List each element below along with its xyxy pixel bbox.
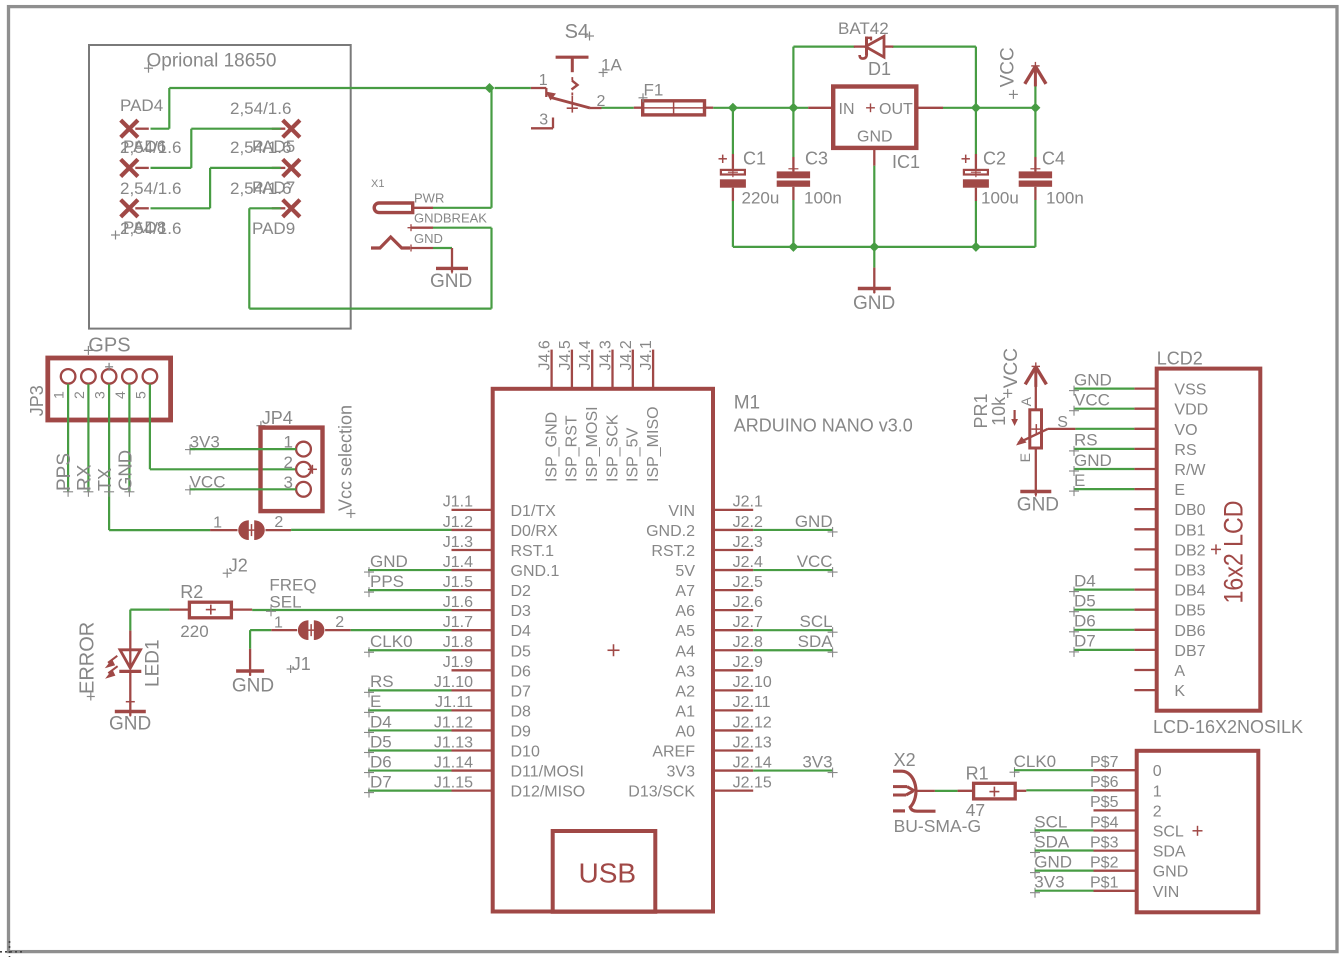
svg-text:GND: GND (1034, 853, 1072, 872)
svg-text:RS: RS (370, 672, 394, 691)
svg-text:J4.1: J4.1 (638, 340, 655, 370)
svg-text:4: 4 (112, 391, 128, 399)
svg-text:D6: D6 (370, 752, 392, 771)
svg-text:SDA: SDA (798, 632, 834, 651)
pad PAD8 (121, 200, 138, 217)
pin J2.12 of M1 (713, 729, 753, 731)
svg-text:R2: R2 (180, 582, 203, 602)
svg-text:3V3: 3V3 (802, 752, 832, 771)
svg-text:J2.7: J2.7 (733, 614, 763, 631)
svg-text:GND: GND (1017, 495, 1059, 516)
svg-text:J2: J2 (229, 555, 248, 575)
svg-text:C3: C3 (805, 149, 828, 169)
svg-text:J2.2: J2.2 (733, 514, 763, 531)
svg-text:J2.11: J2.11 (733, 694, 771, 711)
svg-text:GND: GND (1074, 370, 1112, 389)
svg-text:J2.4: J2.4 (733, 554, 763, 571)
pin J2.4 of M1 (713, 569, 753, 571)
svg-text:VCC: VCC (998, 47, 1019, 87)
pin J1.13 of M1 (452, 749, 493, 751)
svg-text:PAD5: PAD5 (252, 137, 295, 156)
regulator IC1 (833, 87, 916, 148)
pin J2.15 of M1 (713, 789, 753, 791)
supply symbol VCC at PR1 (1034, 367, 1037, 387)
pin J4.1 ISP (652, 350, 654, 389)
svg-text:LCD-16X2NOSILK: LCD-16X2NOSILK (1153, 717, 1303, 737)
svg-text:J4.4: J4.4 (577, 340, 594, 370)
svg-text:1A: 1A (601, 55, 622, 74)
wire GND to P$2 (1035, 869, 1094, 871)
svg-text:VO: VO (1174, 422, 1197, 439)
svg-text:3: 3 (539, 112, 548, 129)
pin DB3 of LCD2 (1134, 568, 1156, 570)
svg-text:2: 2 (274, 514, 283, 531)
svg-text:J2.15: J2.15 (733, 774, 772, 791)
svg-text:SEL: SEL (269, 593, 301, 612)
pin J1.9 of M1 (452, 669, 493, 671)
svg-text:K: K (1174, 683, 1185, 700)
svg-text:J1: J1 (292, 654, 311, 674)
wire X1 PWR to switch net (433, 207, 492, 209)
svg-text:GND: GND (414, 231, 443, 246)
svg-text:J4.3: J4.3 (598, 340, 615, 370)
wire RS to LCD RS (1074, 448, 1134, 450)
pin J2.6 of M1 (713, 609, 753, 611)
wire SDA from J2.8 (753, 649, 832, 651)
pin K of LCD2 (1134, 689, 1156, 691)
svg-text:TX: TX (95, 468, 115, 491)
svg-text:VIN: VIN (668, 503, 695, 520)
pin J1.6 of M1 (452, 609, 493, 611)
pin VSS of LCD2 (1134, 387, 1156, 389)
wire CLK0 to P$7 (1014, 769, 1094, 771)
svg-text:A4: A4 (675, 643, 695, 660)
pin J1.5 of M1 (452, 589, 493, 591)
svg-text:J2.1: J2.1 (733, 494, 763, 511)
pin J4.2 ISP (632, 350, 634, 389)
svg-text:P$1: P$1 (1090, 875, 1119, 892)
svg-text:P$5: P$5 (1090, 794, 1119, 811)
wire D7 to LCD DB7 (1074, 649, 1134, 651)
svg-text:D4: D4 (511, 623, 532, 640)
pin P$3 of connector (1094, 849, 1137, 851)
wire GND to LCD R/W (1074, 468, 1134, 470)
wire VCC to JP4 pin3 (190, 488, 296, 490)
pin 3 of JP3 (102, 369, 117, 384)
svg-text:P$7: P$7 (1090, 754, 1119, 771)
svg-text:GND: GND (232, 676, 274, 697)
svg-text:C4: C4 (1042, 149, 1065, 169)
wire 3V3 from J2.14 (753, 769, 832, 771)
pot adjust arrow (1013, 410, 1015, 421)
svg-text:R1: R1 (966, 764, 989, 784)
pin J4.4 ISP (591, 350, 593, 389)
wire RS to J1.10 (368, 689, 452, 691)
svg-text:1: 1 (1153, 783, 1162, 800)
pad PAD7 (283, 159, 300, 176)
svg-text:GND: GND (114, 450, 135, 491)
svg-text:J2.12: J2.12 (733, 714, 772, 731)
pin J2.9 of M1 (713, 669, 753, 671)
svg-text:D2: D2 (511, 583, 532, 600)
svg-text:D5: D5 (1074, 592, 1096, 611)
pin J1.4 of M1 (452, 569, 493, 571)
svg-text:D3: D3 (511, 603, 532, 620)
svg-text:D6: D6 (1074, 612, 1096, 631)
pin J4.3 ISP (611, 350, 613, 389)
wire E to LCD E (1074, 488, 1134, 490)
svg-text:GNDBREAK: GNDBREAK (414, 211, 487, 226)
svg-text:PAD7: PAD7 (252, 178, 295, 197)
svg-text:D9: D9 (511, 723, 532, 740)
svg-text:BAT42: BAT42 (838, 19, 889, 38)
svg-text:2,54/1.6: 2,54/1.6 (230, 99, 291, 118)
svg-text:220u: 220u (742, 189, 780, 208)
wire SDA to P$3 (1035, 849, 1094, 851)
pin 3 of JP4 (296, 482, 311, 497)
wire R1 to connector P$6 (1026, 789, 1093, 791)
svg-text:P$3: P$3 (1090, 834, 1119, 851)
pin J1.2 of M1 (452, 529, 493, 531)
pin P$6 of connector (1094, 789, 1137, 791)
wire PAD4 to top rail (151, 128, 170, 130)
wire PAD7 to PAD8 (210, 167, 281, 169)
svg-text:10k: 10k (989, 396, 1009, 426)
svg-text:PAD4: PAD4 (120, 96, 163, 115)
svg-text:F1: F1 (644, 81, 664, 100)
svg-text:GND: GND (857, 129, 893, 146)
svg-text:D7: D7 (511, 683, 532, 700)
pin RS of LCD2 (1134, 448, 1156, 450)
pad PAD9 (283, 200, 300, 217)
pin 4 of JP3 (122, 369, 137, 384)
svg-text:D0/RX: D0/RX (511, 523, 558, 540)
svg-text:IN: IN (839, 101, 855, 118)
svg-text:SCL: SCL (1034, 812, 1067, 831)
pin J2.11 of M1 (713, 709, 753, 711)
svg-text:J1.9: J1.9 (443, 654, 473, 671)
pin P$7 of connector (1094, 769, 1137, 771)
svg-text:RST.1: RST.1 (511, 543, 555, 560)
svg-text:D1: D1 (868, 59, 891, 79)
svg-text:J1.2: J1.2 (443, 514, 473, 531)
pad PAD5 (283, 120, 300, 137)
wire PAD9 to GNDBREAK (249, 207, 280, 209)
svg-text:2,54/1.6: 2,54/1.6 (120, 179, 181, 198)
svg-text:P$2: P$2 (1090, 855, 1119, 872)
wire IC1 GND down to rail (873, 166, 875, 247)
svg-text:47: 47 (966, 800, 985, 820)
wire E to J1.11 (368, 709, 452, 711)
pin A of LCD2 (1134, 669, 1156, 671)
svg-text:GND: GND (109, 714, 151, 735)
wire X2 to R1 (935, 790, 958, 792)
pin E of LCD2 (1134, 488, 1156, 490)
svg-text:3: 3 (92, 391, 108, 399)
pin DB5 of LCD2 (1134, 609, 1156, 611)
svg-text:D7: D7 (370, 772, 392, 791)
svg-text:RST.2: RST.2 (651, 543, 695, 560)
svg-text:VSS: VSS (1174, 382, 1206, 399)
pin J2.14 of M1 (713, 769, 753, 771)
svg-text:GND: GND (1153, 864, 1189, 881)
svg-text:A0: A0 (675, 723, 695, 740)
svg-text:DB4: DB4 (1174, 583, 1205, 600)
pin J1.7 of M1 (452, 629, 493, 631)
svg-text:100u: 100u (981, 189, 1019, 208)
svg-text:E: E (1174, 482, 1185, 499)
svg-text:A6: A6 (675, 603, 695, 620)
svg-text:2: 2 (71, 391, 87, 399)
pot body (1035, 385, 1037, 410)
wire J2 to arduino J1.2 (291, 529, 451, 531)
svg-text:DB7: DB7 (1174, 643, 1205, 660)
pin DB7 of LCD2 (1134, 649, 1156, 651)
svg-text:JP4: JP4 (262, 408, 293, 428)
svg-text:E: E (1017, 453, 1033, 462)
svg-text:J4.2: J4.2 (618, 340, 635, 370)
svg-text:C2: C2 (983, 149, 1006, 169)
svg-text:J2.9: J2.9 (733, 654, 763, 671)
pin P$5 of connector (1094, 809, 1137, 811)
svg-text:J1.6: J1.6 (443, 594, 473, 611)
svg-text:D13/SCK: D13/SCK (628, 784, 695, 801)
capacitor C4 (1034, 108, 1036, 157)
svg-text:ISP_RST: ISP_RST (564, 415, 581, 482)
wire SCL to P$4 (1035, 829, 1094, 831)
svg-text:PPS: PPS (54, 453, 75, 491)
svg-text:J2.6: J2.6 (733, 594, 763, 611)
svg-text:J2.14: J2.14 (733, 754, 772, 771)
svg-text:GND: GND (430, 271, 472, 292)
svg-text:S4: S4 (565, 21, 589, 43)
wire JP3 pin5 to JP4 pin2 (149, 384, 151, 469)
svg-text:D4: D4 (1074, 571, 1096, 590)
wire J1 pin1 to ground (250, 629, 271, 631)
svg-text:PAD9: PAD9 (252, 219, 295, 238)
pin J1.1 of M1 (452, 509, 493, 511)
svg-text:CLK0: CLK0 (370, 632, 413, 651)
wire R2 to arduino J1.6 FREQ SEL net (252, 609, 451, 611)
svg-text:J1.4: J1.4 (443, 554, 473, 571)
ground rail wire (733, 246, 1036, 248)
pin VDD of LCD2 (1134, 408, 1156, 410)
junction IC1 out (971, 103, 981, 113)
wire JP3 pin1 PPS (67, 384, 69, 492)
pin J2.13 of M1 (713, 749, 753, 751)
wire 3V3 to P$1 (1035, 890, 1094, 892)
pin J2.10 of M1 (713, 689, 753, 691)
svg-text:SDA: SDA (1153, 844, 1186, 861)
svg-text:P$6: P$6 (1090, 774, 1119, 791)
svg-text:A2: A2 (675, 683, 695, 700)
svg-text:E: E (1074, 471, 1085, 490)
svg-text:J1.7: J1.7 (443, 614, 473, 631)
pin P$4 of connector (1094, 829, 1137, 831)
wire JP3 pin3 TX to jumper J2 (108, 384, 110, 530)
wire D5 to J1.13 (368, 749, 452, 751)
pin VO of LCD2 (1134, 428, 1156, 430)
wire pot S to LCD VO (1048, 428, 1075, 430)
svg-text:5V: 5V (675, 563, 695, 580)
svg-text:PR1: PR1 (971, 393, 991, 428)
wire R2 left to LED1 (130, 608, 169, 610)
wire D5 to LCD DB5 (1074, 609, 1134, 611)
svg-text:2: 2 (284, 453, 293, 472)
wire F1 to IC1 IN (713, 107, 808, 109)
svg-text:Oprional 18650: Oprional 18650 (147, 51, 277, 72)
svg-text:A: A (1174, 663, 1185, 680)
svg-text:A: A (1018, 396, 1034, 406)
fuse F1 (634, 107, 643, 109)
svg-text:16x2 LCD: 16x2 LCD (1219, 501, 1249, 604)
pin 3 of S4 (531, 127, 553, 129)
svg-text:GND: GND (370, 552, 408, 571)
pin J2.8 of M1 (713, 649, 753, 651)
svg-text:2: 2 (1153, 803, 1162, 820)
wire D7 to J1.15 (368, 789, 452, 791)
svg-text:J4.5: J4.5 (557, 340, 574, 370)
svg-text:2: 2 (335, 614, 344, 631)
svg-text:DB5: DB5 (1174, 603, 1205, 620)
capacitor C1 (732, 108, 734, 154)
svg-text:100n: 100n (804, 189, 842, 208)
svg-text:VCC: VCC (797, 552, 833, 571)
pin DB2 of LCD2 (1134, 548, 1156, 550)
wire X1 GND to ground (433, 247, 452, 249)
svg-text:RS: RS (1074, 431, 1098, 450)
svg-text:DB2: DB2 (1174, 542, 1205, 559)
svg-text:GND.2: GND.2 (646, 523, 695, 540)
svg-text:1: 1 (539, 72, 548, 89)
ground symbol below J1 (236, 669, 264, 672)
svg-text:D8: D8 (511, 703, 532, 720)
svg-text:J1.12: J1.12 (434, 714, 473, 731)
svg-text:J1.14: J1.14 (434, 754, 473, 771)
svg-text:ISP_MISO: ISP_MISO (645, 406, 662, 482)
svg-text:R/W: R/W (1174, 462, 1206, 479)
wire GND to J1.4 (368, 569, 452, 571)
svg-text:J1.15: J1.15 (434, 774, 473, 791)
USB connector box (553, 831, 656, 912)
svg-text:LED1: LED1 (143, 639, 164, 687)
svg-text:D12/MISO: D12/MISO (511, 784, 586, 801)
pot E pin to ground (1035, 448, 1037, 495)
svg-text:DB1: DB1 (1174, 522, 1205, 539)
pin P$1 of connector (1094, 890, 1137, 892)
pin DB1 of LCD2 (1134, 528, 1156, 530)
svg-text:OUT: OUT (879, 101, 913, 118)
pin J1.12 of M1 (452, 729, 493, 731)
svg-text:P$4: P$4 (1090, 814, 1119, 831)
svg-text:1: 1 (213, 514, 222, 531)
svg-text:USB: USB (579, 858, 637, 889)
wire IC1 OUT to VCC (943, 107, 1035, 109)
svg-text:J1.8: J1.8 (443, 634, 473, 651)
svg-text:3V3: 3V3 (1034, 873, 1064, 892)
svg-text:M1: M1 (734, 392, 760, 413)
diode bypass loop wire (792, 47, 794, 108)
svg-text:ISP_MOSI: ISP_MOSI (584, 406, 601, 482)
svg-text:ISP_5V: ISP_5V (625, 427, 642, 482)
pin J2.5 of M1 (713, 589, 753, 591)
svg-text:ISP_GND: ISP_GND (543, 412, 560, 482)
svg-text:1: 1 (274, 614, 283, 631)
pin J1.10 of M1 (452, 689, 493, 691)
svg-text:SCL: SCL (800, 612, 833, 631)
svg-text:PWR: PWR (414, 190, 444, 205)
wire JP3 pin4 GND (128, 384, 130, 492)
svg-text:A7: A7 (675, 583, 695, 600)
pin GNDBREAK of X1 (411, 227, 433, 229)
wire PAD5 to PAD6 (191, 128, 280, 130)
pin J1.11 of M1 (452, 709, 493, 711)
svg-text:J1.3: J1.3 (443, 534, 473, 551)
junction rail C3 (788, 242, 798, 252)
svg-text:GPS: GPS (88, 335, 130, 357)
junction VCC tap (1030, 103, 1040, 113)
svg-text:ARDUINO NANO v3.0: ARDUINO NANO v3.0 (734, 416, 913, 436)
pin J2.7 of M1 (713, 629, 753, 631)
svg-text:D1/TX: D1/TX (511, 503, 557, 520)
svg-text:X1: X1 (371, 178, 384, 190)
wire VCC from J2.4 (753, 569, 832, 571)
svg-text:J2.10: J2.10 (733, 674, 772, 691)
svg-text:GND: GND (853, 293, 895, 314)
svg-text:J1.10: J1.10 (434, 674, 473, 691)
pin DB4 of LCD2 (1134, 588, 1156, 590)
svg-text:SCL: SCL (1153, 824, 1184, 841)
pin J4.6 ISP (550, 350, 552, 389)
wire S4 pin2 to fuse F1 (602, 107, 634, 109)
wire D4 to LCD DB4 (1074, 588, 1134, 590)
pin PWR of X1 (413, 207, 433, 209)
svg-text:J1.5: J1.5 (443, 574, 473, 591)
wire S4 pin1 from junction (495, 87, 531, 89)
svg-text:J2.5: J2.5 (733, 574, 763, 591)
svg-text:GND.1: GND.1 (511, 563, 560, 580)
svg-text:ERROR: ERROR (77, 622, 99, 694)
pin J2.1 of M1 (713, 509, 753, 511)
capacitor C3 (792, 108, 794, 157)
svg-text:RS: RS (1174, 442, 1196, 459)
pin 1 of JP3 (61, 369, 76, 384)
svg-text:100n: 100n (1046, 189, 1084, 208)
pin 2 of JP4 (296, 462, 311, 477)
svg-text:VDD: VDD (1174, 402, 1208, 419)
svg-text:3V3: 3V3 (667, 764, 696, 781)
svg-text:ISP_SCK: ISP_SCK (604, 414, 621, 482)
wire VCC to LCD VDD (1074, 408, 1134, 410)
svg-text:VIN: VIN (1153, 884, 1180, 901)
svg-text:GND: GND (795, 512, 833, 531)
svg-text:J1.11: J1.11 (435, 694, 473, 711)
optional 18650 battery box (89, 45, 351, 329)
svg-text:Vcc selection: Vcc selection (336, 405, 356, 511)
supply symbol VCC (1034, 86, 1036, 108)
capacitor C2 (975, 108, 977, 154)
svg-text:AREF: AREF (652, 744, 695, 761)
svg-text:RX: RX (74, 464, 95, 491)
svg-text:D5: D5 (370, 732, 392, 751)
wire D4 to J1.12 (368, 729, 452, 731)
pin J1.14 of M1 (452, 769, 493, 771)
svg-text:VCC: VCC (1074, 391, 1110, 410)
svg-text:5: 5 (132, 391, 148, 399)
pin J2.3 of M1 (713, 549, 753, 551)
pin DB0 of LCD2 (1134, 508, 1156, 510)
svg-text:J4.6: J4.6 (537, 340, 554, 370)
